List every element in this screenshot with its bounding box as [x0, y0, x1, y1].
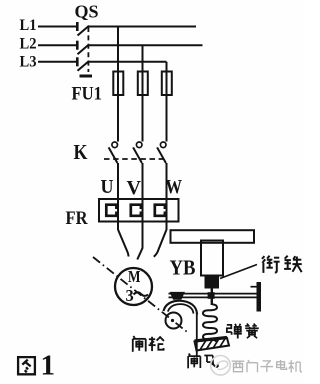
- svg-text:L1: L1: [20, 17, 37, 34]
- lever bottom line: [169, 296, 257, 298]
- switch QS pole 3 blade: [78, 61, 90, 71]
- svg-text:V: V: [127, 177, 142, 199]
- wire L2 incoming: [38, 44, 77, 46]
- contactor K contact 3 fixed circle: [160, 142, 166, 148]
- brake pad hatched block: [195, 338, 230, 351]
- relay FR wire 1 through: [117, 199, 119, 222]
- svg-text:3: 3: [126, 286, 134, 305]
- wire W to motor: [154, 222, 167, 257]
- svg-text:W: W: [166, 176, 183, 198]
- mounting beam: [171, 230, 255, 243]
- anchor pin tick: [251, 286, 257, 288]
- brake wheel hub dot: [171, 319, 174, 322]
- armature rod: [211, 288, 213, 306]
- watermark text ximenzi dianji: [232, 361, 245, 372]
- wire L3 after switch: [89, 61, 167, 63]
- svg-text:L2: L2: [20, 36, 37, 53]
- switch QS pole 2 blade: [78, 44, 90, 54]
- contactor K contact 1 blade: [109, 147, 118, 163]
- wire phase W drop: [166, 62, 168, 72]
- wire phase U drop: [117, 27, 119, 72]
- fuse FU1-3 body: [162, 72, 172, 96]
- svg-text:U: U: [101, 176, 114, 198]
- switch QS pole 2 contact tick: [76, 41, 79, 50]
- label danhuang (spring): [227, 324, 242, 339]
- svg-text:YB: YB: [170, 256, 196, 280]
- fuse FU1-2 wire through: [142, 72, 144, 142]
- armature pointer line: [220, 265, 257, 279]
- contactor K linkage dashed: [104, 158, 163, 160]
- switch QS handle bar: [80, 75, 93, 78]
- svg-text:FU1: FU1: [72, 84, 103, 105]
- svg-text:K: K: [74, 140, 89, 164]
- relay FR heater 1: [106, 205, 118, 216]
- svg-text:FR: FR: [66, 208, 88, 229]
- relay FR heater 2: [131, 205, 143, 216]
- label xiantie (armature): [262, 256, 280, 273]
- wire L1 incoming: [38, 26, 77, 28]
- contactor K contact 3 blade: [157, 147, 166, 163]
- brake shoe arc outer: [164, 301, 198, 315]
- motor M circle: [115, 268, 152, 305]
- contactor K contact 1 fixed circle: [112, 142, 118, 148]
- switch QS pole 1 blade: [78, 26, 90, 36]
- fuse FU1-1 body: [113, 72, 123, 96]
- wire phase V drop: [142, 45, 144, 71]
- wire U to motor: [118, 222, 128, 257]
- brake YB coil body: [201, 241, 223, 276]
- label zhalun (brake wheel): [133, 336, 146, 352]
- watermark logo circle: [211, 356, 231, 376]
- relay FR box: [99, 199, 179, 222]
- lever left knob: [171, 293, 185, 300]
- relay FR wire 2 through: [142, 199, 144, 222]
- switch QS pole 1 contact tick: [76, 22, 79, 31]
- anchor bar: [257, 282, 262, 312]
- svg-text:1: 1: [41, 350, 56, 382]
- motor tilde: [134, 292, 149, 296]
- label zhawa (brake pad): [188, 353, 200, 368]
- brake shoe arc inner: [168, 304, 194, 313]
- fuse FU1-1 wire through: [117, 72, 119, 142]
- wire contact3 to FR: [166, 163, 168, 199]
- wire contact1 to FR: [117, 163, 119, 199]
- lever top line: [169, 293, 257, 295]
- svg-text:M: M: [128, 267, 141, 286]
- svg-text:QS: QS: [75, 2, 99, 22]
- fuse FU1-3 wire through: [166, 72, 168, 142]
- wire contact2 to FR: [142, 163, 144, 199]
- brake wheel circle: [166, 313, 182, 329]
- wire L2 after switch: [89, 44, 203, 46]
- contactor K contact 2 blade: [133, 147, 142, 163]
- wire L1 after switch: [89, 26, 197, 28]
- relay FR wire 3 through: [166, 199, 168, 222]
- wire L3 incoming: [38, 61, 77, 63]
- rod collar at lever: [208, 292, 215, 299]
- wire V to motor: [137, 222, 142, 260]
- fuse FU1-2 body: [138, 72, 148, 96]
- contactor K contact 2 fixed circle: [136, 142, 142, 148]
- brake arm vertical: [196, 313, 198, 358]
- spring coil: [203, 304, 217, 341]
- shaft dash-dot line: [93, 257, 189, 334]
- figure label tu 1: [18, 357, 35, 374]
- switch QS linkage dashed: [87, 27, 89, 72]
- switch QS pole 3 contact tick: [76, 57, 79, 66]
- armature block: [206, 277, 219, 288]
- svg-text:L3: L3: [20, 54, 37, 71]
- relay FR heater 3: [155, 205, 167, 216]
